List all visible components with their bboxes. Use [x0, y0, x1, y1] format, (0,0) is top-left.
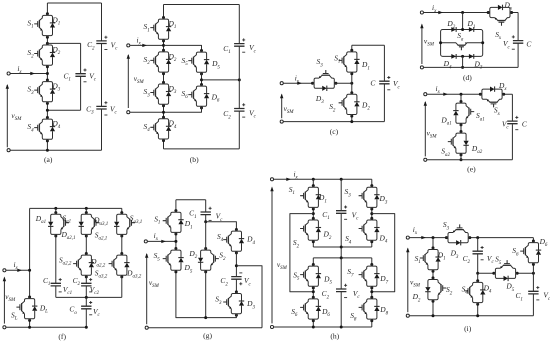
svg-text:S6: S6 [512, 246, 519, 257]
svg-text:(h): (h) [330, 332, 339, 341]
svg-text:Sa2,2: Sa2,2 [59, 255, 72, 266]
svg-text:Sx: Sx [494, 106, 501, 117]
switch S3 / diode D3 [150, 81, 171, 107]
svg-text:D8: D8 [379, 305, 388, 316]
switch S1 / diode D1 [339, 49, 360, 75]
switch S5 / diode D5 [163, 247, 184, 273]
svg-text:Da1: Da1 [440, 116, 451, 127]
switch S5 / diode D5 [188, 49, 209, 75]
wire AC link right [372, 214, 395, 292]
capacitor C2 reversed [231, 277, 241, 280]
svg-text:Sx: Sx [495, 30, 502, 41]
svg-text:C2: C2 [220, 276, 228, 287]
wire right column lower [371, 258, 373, 327]
svg-text:D5: D5 [323, 274, 332, 285]
switch Sx / diode Dx horizontal cell [487, 5, 513, 26]
switch S6 / diode D6 [520, 240, 541, 266]
wire outer rail [101, 3, 103, 150]
diode Da1 / switch Sa1 cell [453, 100, 474, 126]
wire mid link [478, 272, 534, 274]
wire column 3 [121, 236, 123, 254]
switch S3 / diode D3 [223, 290, 244, 316]
svg-text:S2: S2 [143, 55, 150, 66]
wire left column [29, 208, 31, 327]
svg-text:Vc1: Vc1 [63, 285, 72, 296]
svg-text:C1: C1 [322, 210, 329, 221]
terminal bottom left [127, 111, 130, 114]
svg-text:C: C [370, 79, 375, 88]
diode Da2,1 / switch Sa2,1 cell [79, 211, 100, 237]
svg-text:D5: D5 [183, 263, 192, 274]
vSM arrow [424, 102, 426, 156]
capacitor C [379, 81, 389, 84]
svg-text:D1: D1 [361, 60, 370, 71]
svg-text:S6: S6 [181, 89, 188, 100]
svg-text:D3: D3 [473, 59, 482, 70]
wire column trunk [46, 3, 48, 150]
svg-text:C2: C2 [223, 109, 231, 120]
switch Sa inline IGBT [456, 42, 467, 50]
wire bottom rail [410, 315, 534, 317]
svg-text:Dx: Dx [498, 81, 507, 92]
svg-text:Sa2: Sa2 [441, 147, 450, 158]
terminal bottom [3, 326, 6, 329]
vSM arrow [146, 254, 148, 324]
svg-text:S1: S1 [143, 22, 149, 33]
capacitor C3 [96, 106, 106, 109]
wire top [427, 93, 512, 95]
wire link [460, 125, 462, 132]
svg-text:Vc: Vc [110, 105, 118, 116]
wire to column [336, 82, 352, 84]
svg-text:S2: S2 [446, 285, 453, 296]
wire mid column [205, 222, 207, 318]
svg-text:D2: D2 [446, 19, 455, 30]
svg-text:SL: SL [11, 311, 18, 322]
wire C2 column [340, 258, 342, 327]
svg-text:C2: C2 [322, 289, 330, 300]
svg-text:C1: C1 [63, 71, 70, 82]
svg-text:Vc: Vc [353, 289, 361, 300]
switch S3 / diode D3 [359, 184, 380, 210]
wire S4 stub [477, 273, 479, 315]
switch S6 / diode D6 [300, 296, 321, 322]
wire top [424, 12, 518, 14]
svg-text:D6: D6 [321, 307, 330, 318]
wire top [47, 2, 101, 4]
switch S3 / diode D3 horizontal cell [311, 70, 337, 91]
svg-text:Da3,1: Da3,1 [93, 216, 108, 227]
svg-text:vSM: vSM [149, 278, 160, 289]
capacitor C1 [528, 291, 538, 294]
wire bottom [164, 148, 240, 150]
vSM arrow [281, 95, 283, 119]
wire top [274, 178, 372, 180]
terminal ix [406, 236, 409, 239]
svg-text:S7: S7 [347, 267, 354, 278]
wire column trunk [351, 45, 353, 121]
wire right rail [383, 45, 385, 121]
diode D2 / switch S2 cell [425, 276, 446, 302]
svg-text:S3: S3 [443, 220, 450, 231]
switch S4 / diode D4 [465, 279, 486, 305]
wire Co stubs [85, 297, 87, 327]
wire right column [532, 238, 534, 316]
capacitor C1 [51, 283, 61, 286]
switch S4 / diode D4 [223, 228, 244, 254]
wire column 2 [85, 236, 87, 254]
svg-text:S5: S5 [293, 271, 300, 282]
switch S1 / diode D1 [150, 16, 171, 42]
svg-text:D7: D7 [379, 274, 388, 285]
wire lower bridge top bus [313, 257, 372, 259]
wire to S4 [206, 222, 237, 230]
capacitor C [513, 41, 523, 44]
capacitor C1 [336, 211, 346, 214]
svg-text:Sa: Sa [457, 31, 464, 42]
wire ix input [10, 73, 47, 75]
svg-text:C1: C1 [515, 291, 522, 302]
svg-text:vSM: vSM [424, 37, 435, 48]
wire C1 column [340, 179, 342, 258]
svg-text:Da2: Da2 [471, 144, 483, 155]
svg-text:Vc: Vc [244, 276, 252, 287]
capacitor Co [81, 306, 91, 309]
svg-text:S4: S4 [345, 234, 352, 245]
wire cell3 bottom down [121, 277, 123, 298]
terminal bottom [424, 158, 427, 161]
wire bridge feed [462, 13, 464, 30]
wire ix input [148, 240, 176, 242]
svg-text:D3: D3 [315, 94, 324, 105]
wire bridge bottom stub [462, 56, 464, 67]
svg-text:Sa2,1: Sa2,1 [95, 230, 107, 241]
capacitor C2 [234, 109, 244, 112]
svg-text:D2: D2 [412, 292, 421, 303]
terminal ix [3, 269, 6, 272]
wire top [164, 4, 240, 6]
svg-text:Da3,2: Da3,2 [126, 268, 142, 279]
wire upper bridge bottom bus [313, 246, 372, 248]
switch Sa3,2 / diode Da3,2 cell [109, 252, 130, 278]
wire top [30, 207, 122, 209]
svg-text:S4: S4 [27, 122, 34, 133]
svg-text:D5: D5 [211, 59, 220, 70]
diode Da1 / switch Sa1 cell [48, 211, 69, 237]
wire left column [432, 238, 434, 316]
wire left branch stub [460, 94, 462, 101]
capacitor C2 [96, 41, 106, 44]
wire left column upper [312, 179, 314, 247]
node B junction [46, 109, 49, 112]
switch S1 / diode D1 [163, 209, 184, 235]
svg-text:S1: S1 [334, 53, 340, 64]
terminal bottom [145, 326, 148, 329]
wire C2 to S3 [235, 279, 237, 292]
terminal bottom [270, 325, 273, 328]
wire AC link left [290, 214, 313, 292]
svg-text:C1: C1 [223, 44, 230, 55]
svg-text:Da1: Da1 [35, 214, 46, 225]
svg-text:D4: D4 [378, 234, 387, 245]
wire mid branch [201, 74, 203, 85]
terminal bottom [406, 314, 409, 317]
svg-text:(e): (e) [467, 164, 476, 173]
wire C2 column [477, 238, 479, 274]
switch S2 / diode D2 [34, 42, 55, 68]
terminal ix [127, 44, 130, 47]
svg-text:S4: S4 [462, 284, 469, 295]
svg-text:S8: S8 [350, 311, 357, 322]
diode D1 [469, 27, 474, 32]
svg-text:ix: ix [293, 169, 298, 180]
svg-text:D6: D6 [211, 92, 220, 103]
svg-text:S1: S1 [415, 254, 421, 265]
diode D2 [451, 27, 456, 32]
switch S6 / diode D6 [188, 83, 209, 109]
switch S1 / diode D1 [420, 246, 441, 272]
wire node A to C1 [47, 43, 80, 73]
svg-text:D1: D1 [184, 219, 193, 230]
switch S2 / diode D2 [300, 217, 321, 243]
switch Sa2,2 / diode Da2,2 cell [73, 252, 94, 278]
switch S3 / diode D3 [34, 79, 55, 105]
wire bottom bus [274, 326, 372, 328]
switch SL / diode DL cell [16, 296, 37, 322]
svg-text:S5: S5 [154, 251, 161, 262]
svg-text:Dx: Dx [504, 1, 513, 12]
svg-text:vSM: vSM [277, 260, 288, 271]
wire top [176, 199, 206, 201]
svg-text:C2: C2 [463, 254, 471, 265]
wire bottom [427, 159, 512, 161]
wire ix input [284, 82, 313, 84]
wire S6 bottom [164, 108, 202, 112]
terminal ix [144, 240, 147, 243]
wire right rail [238, 5, 240, 149]
wire bridge mid branch [441, 42, 483, 44]
terminal bottom [7, 149, 10, 152]
svg-text:Sa1: Sa1 [476, 111, 485, 122]
svg-text:C: C [526, 39, 531, 48]
wire left column [176, 200, 206, 318]
capacitor C2 [336, 289, 346, 292]
svg-text:D4: D4 [246, 235, 255, 246]
diode D2 / switch S2 cell [198, 247, 219, 273]
svg-text:Vc: Vc [487, 254, 495, 265]
switch S4 / diode D4 [359, 217, 380, 243]
wire column 1 to C1 [55, 236, 57, 297]
wire to S5 branch [164, 45, 202, 50]
svg-text:C2: C2 [87, 40, 95, 51]
svg-text:Vc: Vc [89, 72, 97, 83]
svg-text:ix: ix [413, 225, 418, 236]
wire bottom [424, 66, 518, 68]
wire column trunk [163, 5, 165, 149]
terminal ix [280, 82, 283, 85]
svg-text:Sa3,2: Sa3,2 [95, 268, 108, 279]
diode D4 [451, 54, 456, 59]
svg-text:C2: C2 [73, 276, 81, 287]
svg-text:Co: Co [69, 305, 77, 316]
switch S5 / diode D5 [300, 263, 321, 289]
svg-text:Da2,1: Da2,1 [60, 230, 75, 241]
wire ix input [130, 44, 163, 46]
svg-text:D4: D4 [443, 59, 452, 70]
wire S4 bottom junction [235, 253, 237, 277]
capacitor C2 [473, 251, 483, 254]
wire cell2 bottom to C2 [85, 277, 87, 298]
wire bottom [149, 327, 263, 329]
svg-text:ix: ix [436, 84, 441, 95]
wire to right rail [236, 266, 262, 328]
capacitor C2 [81, 283, 91, 286]
switch Sx / diode Dx horizontal cell [479, 86, 505, 107]
terminal ix [424, 93, 427, 96]
capacitor C1 [201, 212, 211, 215]
svg-text:Vc: Vc [216, 212, 224, 223]
wire mid bus [56, 296, 122, 298]
svg-text:vSM: vSM [5, 292, 16, 303]
svg-text:S4: S4 [217, 232, 224, 243]
svg-text:S3: S3 [143, 87, 150, 98]
switch S8 / diode D8 [359, 296, 380, 322]
svg-text:Vc: Vc [543, 291, 550, 302]
switch S1 / diode D1 [34, 12, 55, 38]
switch S4 / diode D4 [34, 116, 55, 142]
svg-text:D2: D2 [361, 100, 370, 111]
svg-text:S3: S3 [316, 57, 323, 68]
vSM arrow [3, 278, 5, 324]
wire bottom [284, 121, 385, 123]
wire bottom rail [6, 326, 86, 328]
svg-text:Vc: Vc [352, 210, 360, 221]
svg-text:S4: S4 [143, 122, 150, 133]
svg-text:vSM: vSM [11, 111, 22, 122]
svg-text:DL: DL [39, 304, 48, 315]
wire top [410, 237, 534, 239]
wire bottom stub [460, 155, 462, 160]
svg-text:C1: C1 [43, 276, 50, 287]
terminal ix [270, 178, 273, 181]
vSM arrow [407, 249, 409, 313]
svg-text:D3: D3 [450, 249, 459, 260]
diode bridge frame [441, 30, 483, 57]
vSM arrow [6, 85, 8, 147]
svg-text:D2: D2 [188, 249, 197, 260]
svg-text:S2: S2 [329, 102, 336, 113]
svg-text:C: C [522, 120, 527, 129]
svg-text:ix: ix [154, 231, 159, 242]
switch S4 / diode D4 [150, 116, 171, 142]
svg-text:S1: S1 [154, 215, 160, 226]
svg-text:S5: S5 [495, 255, 502, 266]
svg-text:Vc: Vc [111, 40, 119, 51]
wire right column upper [371, 179, 373, 247]
capacitor C1 [234, 44, 244, 47]
switch S7 / diode D7 [359, 263, 380, 289]
svg-text:(c): (c) [330, 127, 339, 136]
svg-text:D2: D2 [322, 230, 331, 241]
svg-text:Vc2: Vc2 [90, 285, 100, 296]
svg-text:D3: D3 [246, 299, 255, 310]
terminal ix [7, 72, 10, 75]
capacitor C [507, 121, 517, 124]
terminal ix [420, 11, 423, 14]
diode D3 [469, 54, 474, 59]
svg-text:(f): (f) [58, 332, 66, 341]
svg-text:S3: S3 [27, 85, 34, 96]
switch S3 / diode D3 horizontal cell [445, 224, 471, 245]
svg-text:S6: S6 [291, 307, 298, 318]
svg-text:vSM: vSM [284, 104, 295, 115]
svg-text:S1: S1 [27, 19, 33, 30]
capacitor C1 [75, 74, 85, 77]
svg-text:Vc: Vc [503, 39, 511, 50]
svg-text:D5: D5 [505, 282, 514, 293]
svg-text:S2: S2 [27, 48, 34, 59]
switch Sa2 / diode Da2 cell [448, 130, 469, 156]
wire cell stubs [56, 208, 122, 212]
svg-text:vSM: vSM [410, 278, 421, 289]
switch S2 / diode D2 [150, 49, 171, 75]
svg-text:S2: S2 [293, 238, 300, 249]
diode Da3,1 / switch Sa3,1 cell [114, 211, 135, 237]
svg-text:C3: C3 [86, 105, 94, 116]
svg-text:(b): (b) [190, 155, 199, 164]
svg-text:S3: S3 [215, 295, 222, 306]
vSM arrow [421, 25, 423, 65]
svg-text:S3: S3 [344, 187, 351, 198]
switch S1 / diode D1 [300, 184, 321, 210]
svg-text:(i): (i) [464, 324, 472, 333]
wire ix input [6, 269, 29, 271]
svg-text:(a): (a) [44, 155, 53, 164]
svg-text:Vc: Vc [393, 79, 401, 90]
terminal bottom [420, 66, 423, 69]
wire left column lower [312, 258, 314, 327]
wire right rail [511, 94, 513, 160]
svg-text:S2: S2 [219, 251, 226, 262]
svg-text:vSM: vSM [134, 74, 145, 85]
wire mid to rail [202, 79, 240, 81]
svg-text:(g): (g) [203, 331, 212, 340]
vSM arrow [127, 55, 129, 108]
svg-text:C1: C1 [189, 209, 196, 220]
svg-text:D1: D1 [318, 193, 327, 204]
wire right rail [517, 13, 519, 68]
wire top [352, 44, 385, 46]
svg-text:Vc: Vc [249, 108, 257, 119]
wire bottom terminal [130, 111, 163, 113]
svg-text:Vc: Vc [93, 307, 101, 318]
wire C1 column [205, 200, 207, 222]
switch S5 / diode D5 horizontal cell [492, 260, 518, 281]
svg-text:S5: S5 [181, 56, 188, 67]
svg-text:vSM: vSM [427, 129, 438, 140]
svg-text:D3: D3 [378, 194, 387, 205]
vSM arrow [271, 188, 273, 324]
svg-text:(d): (d) [463, 73, 472, 82]
wire bottom [10, 149, 101, 151]
terminal bottom [280, 120, 283, 123]
switch S2 / diode D2 [339, 91, 360, 117]
svg-text:S1: S1 [289, 185, 295, 196]
svg-text:Vc: Vc [249, 43, 257, 54]
svg-text:D6: D6 [539, 237, 548, 248]
wire node B to C1 [47, 76, 80, 110]
wire S3 bottom [206, 315, 237, 317]
